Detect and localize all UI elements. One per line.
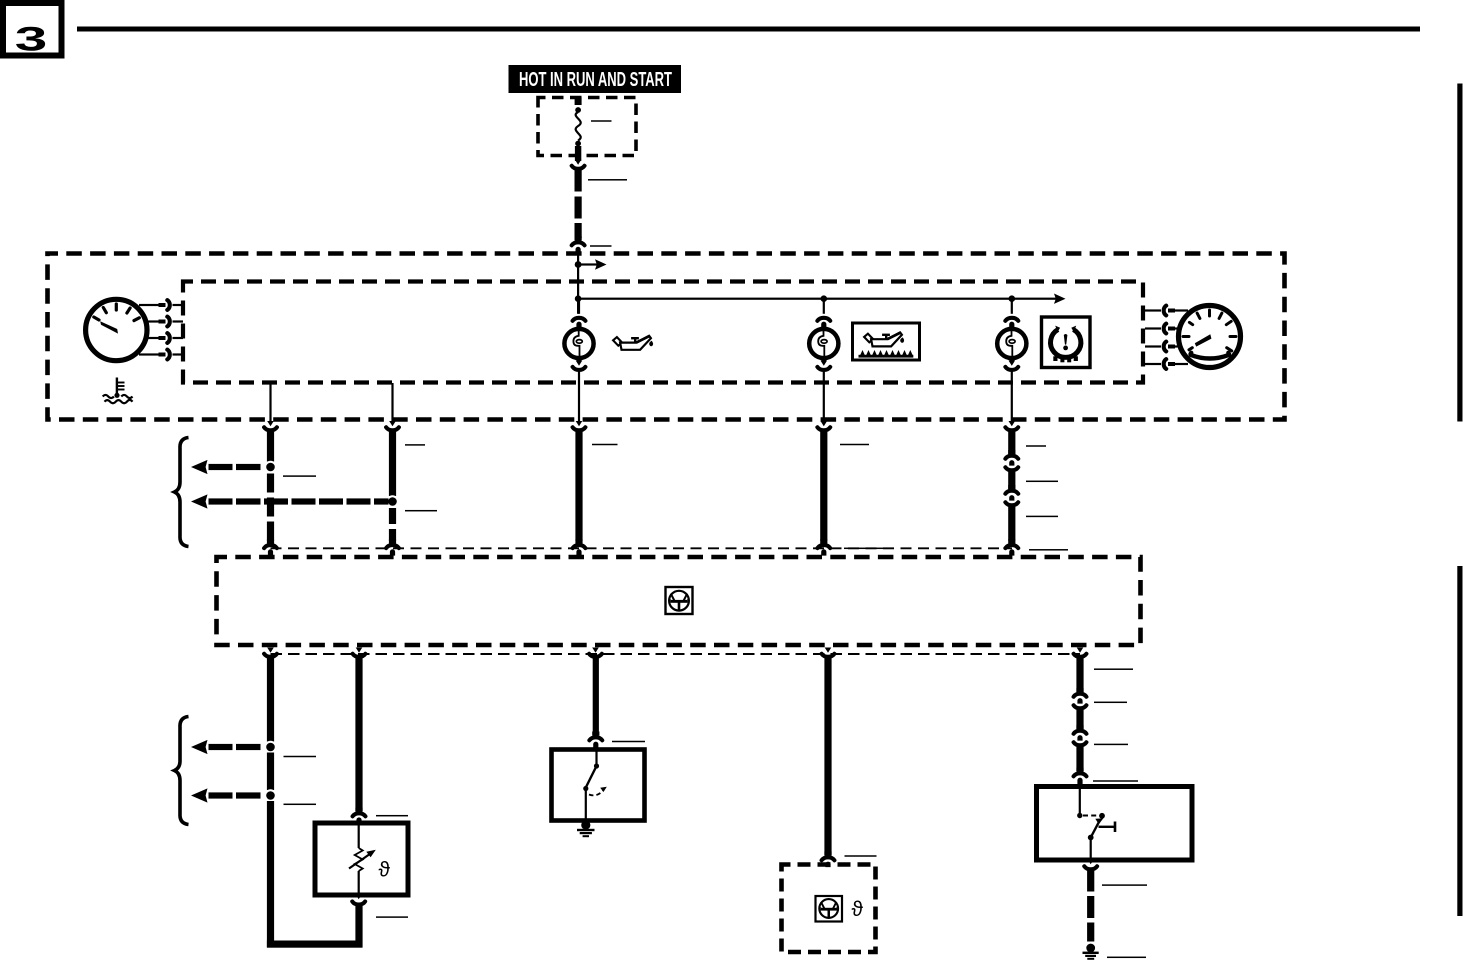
dashed takeoff arrow 4: [191, 788, 261, 802]
dashed takeoff arrow 2: [191, 494, 389, 508]
wire fuse-cluster dashed thick segments: [572, 197, 585, 256]
brace lower: [175, 717, 189, 825]
wire segment: [267, 753, 274, 791]
steering angle sensor dashed box: [782, 865, 876, 953]
wire A dashed lower part: [264, 474, 277, 556]
ground symbol bottom right: [1083, 944, 1099, 960]
wire label lines left group: [405, 444, 425, 446]
right margin bar lower: [1457, 566, 1462, 916]
switch box bottom connector: [1084, 859, 1097, 892]
oil pressure switch box: [552, 750, 645, 821]
oil pressure switch wire: [589, 656, 602, 748]
connector wire B below cluster: [386, 421, 399, 496]
svg-text:ϑ: ϑ: [379, 859, 391, 882]
top rule line: [77, 27, 1420, 32]
body control module dashed box: [217, 557, 1141, 645]
svg-text:3: 3: [15, 21, 48, 59]
brake/clutch switch box: [1037, 787, 1193, 861]
lamp wire 2 below cluster: [817, 421, 830, 556]
wire to bottom loop: [267, 801, 363, 948]
cluster wire stub B: [391, 383, 393, 423]
steering wheel icon in module: [666, 587, 693, 614]
dashed takeoff arrow 1: [191, 460, 261, 474]
connector below fuse: [572, 160, 585, 192]
speedometer lead 4: [1145, 359, 1188, 369]
temp gauge lead 4: [139, 350, 183, 360]
speedometer gauge: [1179, 306, 1241, 368]
thin dashed connector line below module box: [271, 653, 1081, 655]
fuse value label line: [591, 120, 612, 122]
page number box "3": [3, 3, 62, 59]
speedometer lead 3: [1145, 342, 1178, 352]
instrument cluster outer dashed box: [48, 254, 1285, 420]
fuse F1 dashed box: [538, 98, 636, 156]
instrument cluster inner dashed box: [183, 282, 1143, 383]
thin dashed connector line above module box: [271, 547, 1013, 549]
fuse F1 element: [575, 97, 582, 161]
dashed takeoff arrow 3: [191, 740, 261, 754]
module exit connector 5: [1074, 648, 1087, 657]
low oil level icon box: [853, 323, 920, 360]
speedometer lead 1: [1145, 306, 1188, 316]
lamp bus line with junction dots and arrow: [575, 294, 1066, 304]
svg-text:HOT IN RUN AND START: HOT IN RUN AND START: [519, 68, 672, 91]
variable resistor with theta: [349, 826, 391, 893]
junction dot B1: [386, 495, 399, 508]
junction dot A1: [264, 461, 277, 474]
module exit connector 1: [264, 648, 277, 657]
oil pressure icon (oil can): [613, 336, 653, 350]
right margin bar upper: [1457, 84, 1462, 422]
ground feed wire left thick: [267, 656, 274, 742]
steering angle sensor wire: [822, 656, 835, 867]
lamp wire 3 below cluster with inline connectors: [1005, 421, 1018, 556]
wire label line below fuse: [588, 179, 627, 181]
steering wheel icon small: [816, 896, 843, 922]
oil pressure switch contacts: [583, 751, 607, 819]
module exit connector 3: [589, 648, 602, 657]
temperature gauge: [86, 299, 147, 360]
warning lamp: tire pressure: [997, 299, 1026, 423]
ignition feed junction with arrow: [575, 251, 607, 314]
temperature sensor box: [315, 823, 408, 895]
cluster wire stub A: [269, 383, 271, 423]
temperature sensor wire: [353, 656, 366, 824]
warning lamp: low oil level: [809, 299, 838, 423]
temp sensor bottom connector: [352, 894, 365, 948]
junction dot C2: [264, 789, 277, 802]
svg-text:ϑ: ϑ: [852, 898, 864, 921]
ground symbol below oil pressure switch: [577, 820, 595, 837]
wire B dashed lower part: [386, 508, 399, 556]
temp gauge lead 1: [139, 300, 183, 310]
switch contacts: [1077, 789, 1116, 858]
tire pressure (TPMS) icon box: [1042, 317, 1091, 368]
lamp wire 1 below cluster: [573, 421, 586, 556]
brake switch wire with inline connectors: [1074, 656, 1087, 786]
module exit connector 2: [353, 648, 366, 657]
connector wire A below cluster: [264, 421, 277, 462]
power feed label HOT IN RUN AND START: [509, 65, 682, 93]
temp gauge lead 2: [148, 317, 183, 327]
wire label line at cluster entry: [590, 245, 612, 247]
module exit connector 4: [822, 648, 835, 657]
dashed wire to ground: [1087, 896, 1094, 918]
coolant temperature icon: [103, 378, 133, 404]
warning lamp: oil pressure: [564, 299, 593, 423]
junction dot C1: [264, 741, 277, 754]
speedometer lead 2: [1145, 324, 1178, 334]
brace upper: [175, 438, 189, 547]
temp gauge lead 3: [148, 333, 183, 343]
